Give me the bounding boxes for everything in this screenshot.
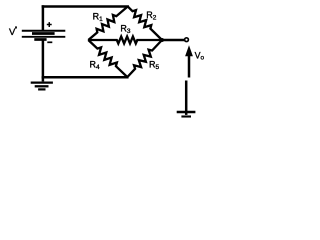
ground right output reference <box>177 112 196 117</box>
Vo arrow annotation <box>185 45 193 77</box>
battery minus sign <box>47 41 52 43</box>
svg-text:R2: R2 <box>146 10 157 22</box>
battery V (plates) <box>22 31 66 40</box>
label V superscript mark <box>15 26 17 28</box>
battery plus sign <box>47 22 52 27</box>
wire bottom rail <box>43 76 127 79</box>
ground left under battery <box>31 77 53 89</box>
resistor R5 <box>127 40 162 77</box>
resistor R4 <box>88 40 127 77</box>
wire top rail <box>43 5 128 8</box>
wire left vertical battery top lead <box>42 7 45 31</box>
junction dot node C <box>160 38 164 42</box>
output terminal circle <box>185 38 189 42</box>
resistor R3 <box>88 37 162 44</box>
svg-text:Vo: Vo <box>195 51 205 62</box>
svg-text:V: V <box>9 27 16 38</box>
wire left vertical battery bottom lead <box>42 41 45 78</box>
resistor R1 <box>88 7 127 41</box>
wire node C to output terminal <box>162 39 184 42</box>
ground lead right <box>185 81 188 115</box>
resistor R2 <box>128 7 162 41</box>
svg-text:R5: R5 <box>149 59 160 71</box>
svg-text:R1: R1 <box>93 11 104 23</box>
svg-text:R3: R3 <box>120 23 130 35</box>
svg-text:R4: R4 <box>90 60 101 72</box>
